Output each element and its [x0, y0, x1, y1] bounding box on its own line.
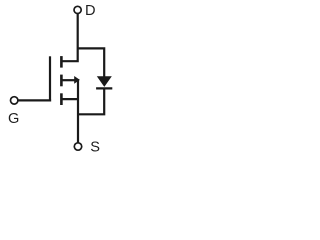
- svg-text:S: S: [90, 140, 100, 156]
- terminal S circle: [74, 143, 81, 150]
- wire body lead: [62, 79, 75, 81]
- svg-text:G: G: [8, 111, 19, 127]
- wire gate lead: [18, 99, 51, 101]
- diode D1 cathode bar: [96, 87, 112, 89]
- wire diode bottom branch: [78, 89, 104, 115]
- transistor Q1 bottom channel bar: [60, 93, 63, 105]
- wire source vertical: [77, 79, 79, 143]
- terminal G circle: [11, 97, 18, 104]
- transistor Q1 top channel bar: [60, 56, 63, 68]
- diode D1 triangle: [97, 76, 112, 87]
- wire drain vertical and elbow to channel: [61, 14, 77, 62]
- transistor Q1 middle channel bar: [60, 75, 63, 87]
- wire source lead: [62, 98, 79, 100]
- terminal D circle: [74, 6, 81, 13]
- body arrow: [74, 76, 80, 84]
- transistor Q1 gate electrode: [49, 56, 51, 101]
- svg-text:D: D: [85, 3, 96, 19]
- wire drain to diode branch: [78, 48, 105, 77]
